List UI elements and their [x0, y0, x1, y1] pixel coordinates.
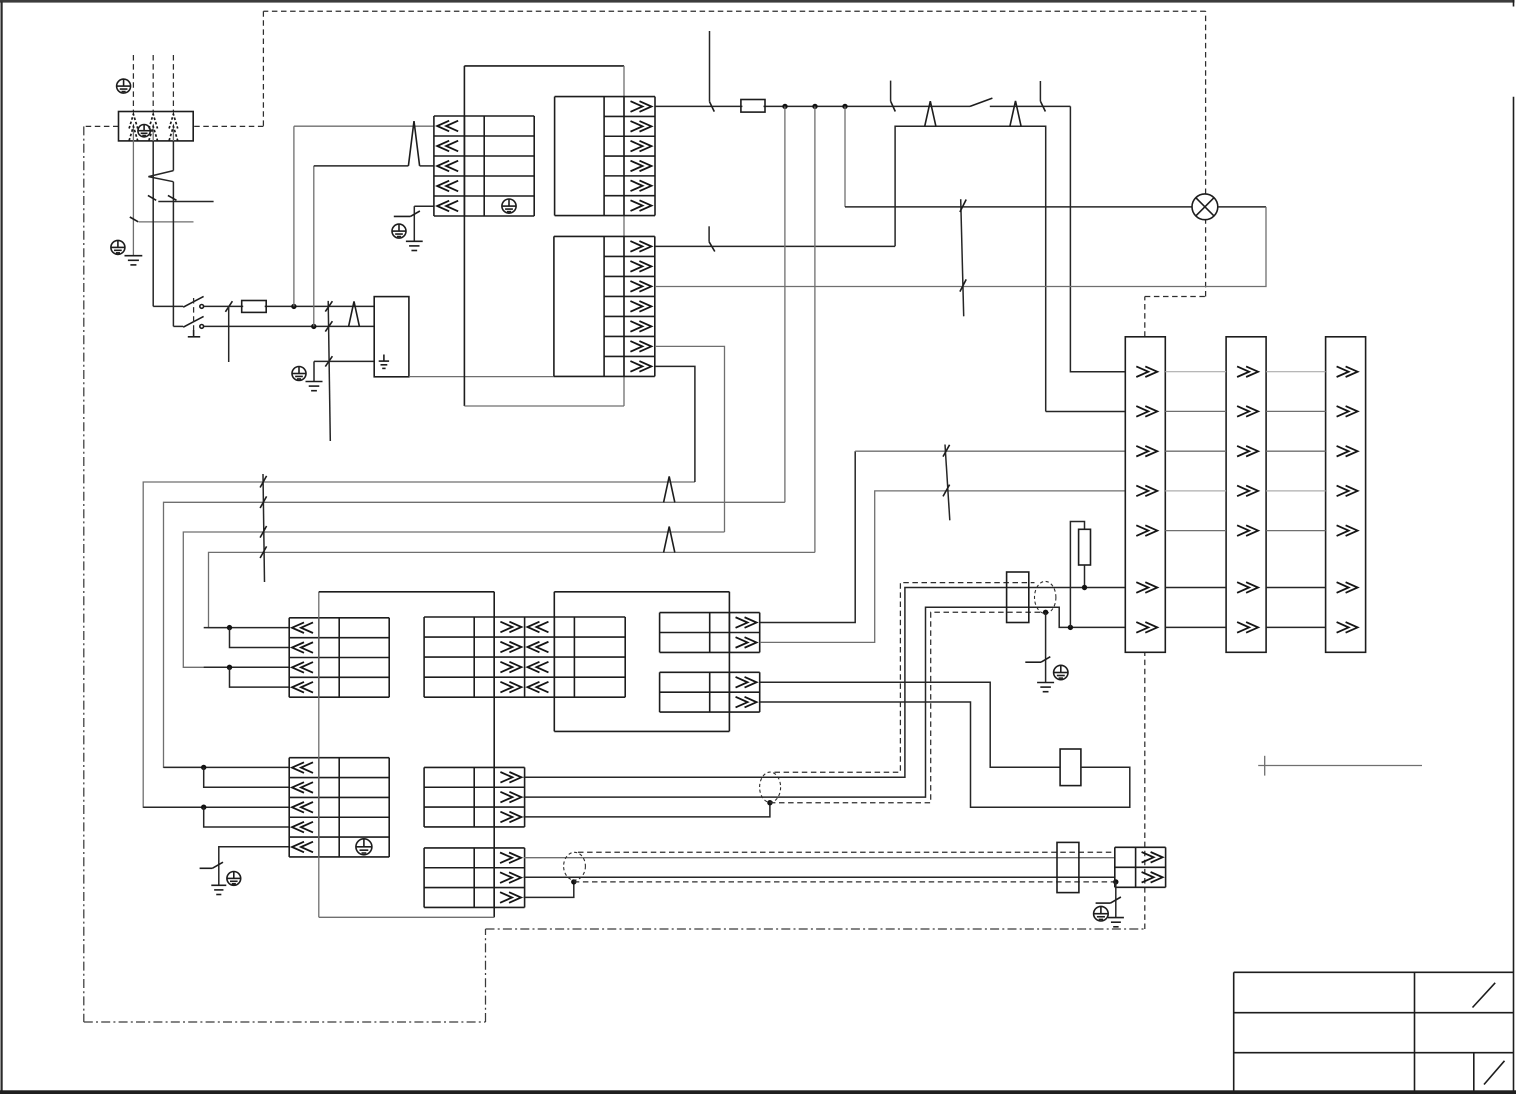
wire L3 corner to switch QS1 — [173, 325, 183, 327]
wire L3 lower segment — [172, 182, 174, 327]
blade on L3 — [168, 195, 177, 200]
ground at PE wire — [306, 382, 323, 391]
strip link wire y587 a — [1165, 587, 1226, 589]
title block table — [1234, 972, 1514, 1090]
spark gap bypass 2 — [1010, 101, 1021, 126]
terminal block XT6 — [424, 848, 524, 908]
input wire row3 left segment — [314, 165, 409, 167]
PE XT9 — [1094, 906, 1109, 921]
cable D ellipse — [760, 772, 781, 802]
terminal block XT1 grid — [434, 116, 534, 216]
page border top-right hook — [1513, 0, 1515, 7]
PE at XT3 ground — [227, 872, 241, 886]
2-pole switch linkage right — [945, 445, 950, 521]
fuse FU2 — [741, 100, 765, 113]
dashed drop to arrester — [262, 11, 264, 126]
3-pole switch blade row A — [325, 301, 332, 311]
terminal block XT3 — [289, 758, 389, 857]
wire to strip row3 — [855, 450, 1125, 452]
earthing switch blade XT3 — [200, 862, 223, 868]
feeder XT3 row3 wire — [143, 806, 289, 808]
feeder XT2 row3 wire — [204, 666, 290, 668]
cable E wire 2 — [524, 876, 1115, 878]
resistor R1 lead — [1084, 565, 1086, 588]
ferrite filter on cable E — [1057, 842, 1079, 892]
blade on L2 — [148, 195, 156, 200]
bypass wire to strip row2 — [1046, 411, 1126, 413]
feeder XT3 row1 wire — [164, 766, 290, 768]
wire L1 down from arrester — [132, 141, 134, 256]
spark gap bypass 1 — [925, 101, 936, 126]
device block U2 — [555, 97, 655, 216]
cabinet dashed border left — [83, 126, 85, 1022]
stub blade on U3 row1 wire — [709, 226, 715, 251]
3-pole switch linkage — [328, 301, 330, 441]
dashed lamp drop upper — [1205, 11, 1207, 194]
branch to XT2 row4 — [230, 667, 290, 687]
feeder corner down x1070 — [1070, 106, 1125, 371]
switch QS1 handle — [188, 330, 200, 337]
page border right — [1513, 97, 1515, 1092]
linkage line for L2/L3 switch — [158, 201, 213, 203]
shield bond dot cable E — [571, 879, 576, 884]
stub with blade x890 — [891, 81, 896, 112]
4-pole switch linkage — [263, 474, 265, 582]
dashed feeder stub L2 — [152, 55, 154, 112]
earthing switch blade shield — [1025, 657, 1050, 663]
indicator lamp HL — [1192, 194, 1218, 220]
input wire row1 to terminal XT1 — [294, 125, 435, 127]
switch QS1 blade upper — [183, 296, 203, 307]
earthing drop at x414 — [413, 206, 415, 241]
page border top — [0, 0, 1515, 3]
blade LB4 — [260, 546, 267, 558]
junction dot feeder 3 — [842, 104, 847, 109]
PE symbol in XT1 row5 — [502, 199, 516, 213]
strip link wire y411 b — [1266, 410, 1325, 412]
grey riser from terminal row1 — [293, 126, 295, 306]
ground shield D — [1037, 683, 1054, 692]
switch QS1 blade lower — [183, 316, 203, 327]
PE wire into power box — [314, 360, 374, 362]
earthing drop XT3 — [218, 866, 220, 885]
ferrite filter on cable D — [1007, 572, 1029, 623]
cable E wire 3 shield bond — [524, 882, 574, 898]
2-pole switch linkage mid — [961, 199, 964, 316]
dashed link to lamp drop — [1145, 296, 1206, 298]
shield earth dot right — [1043, 610, 1048, 615]
junction dot feeder 1 — [782, 104, 787, 109]
riser feeder dot2 to LB4 — [814, 106, 816, 552]
bypass line under feeder — [895, 126, 1046, 411]
double terminal block XT4 — [424, 617, 625, 697]
mini block XT7 — [660, 613, 760, 653]
strip link wire y627 b — [1266, 626, 1325, 628]
feeder drop from top — [709, 31, 711, 102]
grey riser from terminal row3 — [313, 166, 315, 327]
arrester arrow 1 — [129, 114, 138, 141]
junction dot phase A — [291, 304, 296, 309]
earthing switch blade x414 — [394, 211, 420, 216]
earthing switch blade XT9 — [1096, 897, 1121, 903]
main feeder wire left part — [655, 105, 970, 107]
blade on lamp return — [960, 279, 966, 291]
riser feeder dot1 to LB2 — [784, 106, 786, 502]
power supply box U1 — [374, 297, 409, 377]
blade LB1 — [260, 476, 267, 488]
cable D wire 2 (strip row7) — [524, 607, 1126, 797]
dashed stub above strip — [1144, 297, 1146, 337]
cable D wire 1 (strip row6) — [524, 588, 1126, 778]
wire L2 down from arrester — [152, 141, 154, 306]
device block U3 — [554, 236, 655, 376]
terminal strip TS3 — [1326, 337, 1366, 653]
PE symbol at PE wire ground — [292, 367, 306, 381]
blade on lamp wire — [960, 200, 966, 213]
fuse FU1 — [242, 301, 267, 313]
mini block XT9 — [1115, 847, 1166, 887]
strip link wire y490 a — [1165, 490, 1226, 492]
dashed link arrester right — [193, 125, 263, 127]
wire XT8 row1 to relay — [760, 682, 1060, 767]
spark gap LB4 — [664, 527, 675, 553]
strip link wire y371 a — [1165, 371, 1226, 373]
PE symbol above arrester — [117, 79, 131, 93]
strip link wire y451 b — [1266, 450, 1325, 452]
PE wire corner down — [313, 361, 315, 381]
branch to XT3 row4 — [204, 807, 290, 827]
cabinet dashed border step vertical — [485, 929, 487, 1022]
cable D shield ellipse right — [1035, 581, 1056, 613]
wire L2 corner to switch QS1 — [153, 305, 183, 307]
wire XT7 row2 to strip row4 — [760, 491, 1126, 643]
cable D wire 3 shield bond — [524, 803, 770, 817]
surge arrester F1 box — [119, 112, 194, 141]
arrester arrow 3 — [169, 114, 178, 141]
stub with blade x1040 — [1040, 81, 1045, 112]
bus wire LB2 — [164, 502, 785, 767]
shield earth drop XT9 — [1115, 882, 1117, 918]
wire U3 row1 to bypass — [655, 245, 895, 247]
relay loop back to XT8 row2 — [760, 702, 1130, 807]
chassis ground inside power box — [379, 355, 389, 369]
riser U3 row6 to LB3 — [655, 346, 725, 532]
cable D shield dashed lower — [770, 612, 1046, 802]
title block slash 2 — [1484, 1061, 1505, 1085]
cabinet dashed border bottom-right run — [486, 928, 1145, 930]
junction dot resistor — [1082, 585, 1087, 590]
wire power box to main unit — [409, 376, 554, 378]
junction dot XT2 row1 — [227, 625, 232, 630]
strip link wire y627 a — [1165, 626, 1226, 628]
input wire row5 to XT1 — [414, 205, 434, 207]
cabinet dashed border bottom — [84, 1021, 486, 1023]
page border bottom — [0, 1090, 1516, 1094]
bus wire LB3 — [183, 532, 724, 667]
ground for L1 — [125, 256, 143, 265]
cable E shield dashed lower — [574, 881, 1116, 883]
mini block XT8 — [660, 672, 760, 712]
terminal block XT2 — [289, 618, 389, 697]
blade strip row4 wire — [943, 485, 950, 497]
page border left — [1, 2, 3, 1093]
tall spark gap — [408, 121, 419, 166]
junction dot cable D row7 — [1068, 625, 1073, 630]
PE at L1 ground — [111, 240, 125, 254]
branch to XT2 row2 — [230, 628, 290, 648]
branch to XT3 row2 — [204, 767, 290, 787]
datum mark — [1258, 756, 1422, 776]
3-pole switch blade row B — [325, 321, 332, 331]
bus wire LB1 — [143, 482, 695, 807]
cable D shield dashed upper — [775, 583, 1035, 773]
cabinet box lower-mid — [554, 592, 729, 732]
junction dot XT3 row1 — [201, 765, 206, 770]
dashed feeder stub L3 — [172, 55, 174, 112]
main feeder wire right part — [990, 105, 1071, 107]
cable E ellipse — [564, 852, 586, 880]
breaker zigzag on L3 — [148, 171, 173, 182]
bus wire LB4 — [209, 552, 815, 627]
feeder XT2 row1 wire — [204, 627, 290, 629]
shield bond dot cable D — [767, 800, 772, 805]
dashed riser through terminal block — [1144, 652, 1146, 929]
junction dot XT2 row3 — [227, 665, 232, 670]
dashed lamp drop lower — [1205, 219, 1207, 296]
junction dot feeder 2 — [812, 104, 817, 109]
tap with blade at x229 — [225, 301, 232, 362]
disconnect tick on L1 — [130, 217, 138, 222]
PE in XT3 row5 — [356, 839, 372, 855]
spark gap LB2 — [664, 476, 675, 502]
switch QS1 contact circle lower — [200, 325, 204, 329]
lamp return loop — [655, 207, 1266, 287]
blade on feeder drop — [710, 102, 715, 112]
shield earth drop — [1045, 612, 1047, 682]
input wire row3 right segment — [420, 165, 435, 167]
spark gap spike — [349, 301, 360, 326]
terminal block XT5 — [424, 767, 524, 827]
strip link wire y371 b — [1266, 371, 1325, 373]
resistor R1 — [1079, 529, 1091, 565]
cable E wire 1 — [524, 857, 1115, 859]
switch blade on feeder — [970, 98, 992, 106]
title block slash 1 — [1473, 983, 1496, 1008]
junction dot XT3 row3 — [201, 805, 206, 810]
terminal strip TS2 — [1226, 337, 1266, 653]
strip link wire y530 a — [1165, 530, 1226, 532]
PE at x414 — [392, 224, 406, 238]
blade LB2 — [260, 496, 267, 508]
blade strip row3 wire — [943, 445, 950, 457]
relay KA1 box — [1060, 749, 1081, 786]
3-pole switch blade row C — [325, 356, 332, 366]
strip link wire y411 a — [1165, 410, 1226, 412]
lamp return wire right — [1218, 206, 1266, 208]
wire L3 upper segment — [172, 141, 174, 171]
riser U3 row7 to LB1 — [655, 366, 695, 482]
strip link wire y451 a — [1165, 450, 1226, 452]
shield earth dot at XT9 — [1113, 879, 1118, 884]
PE shield D — [1054, 665, 1068, 679]
arrester arrow 2 — [149, 114, 158, 141]
resistor R1 branch — [1070, 522, 1084, 628]
linkage line from L1 tick — [139, 221, 194, 223]
cable E shield dashed upper — [578, 851, 1115, 853]
ground XT3 — [211, 885, 226, 894]
phase wire B to power box — [204, 325, 375, 327]
wire XT7 row1 riser — [760, 451, 856, 622]
terminal strip TS1 — [1125, 337, 1165, 653]
ground XT9 — [1108, 918, 1124, 927]
PE symbol inside arrester — [138, 125, 150, 137]
ground x414 — [406, 241, 423, 250]
strip link wire y530 b — [1266, 530, 1325, 532]
phase wire A to power box — [204, 305, 375, 307]
switch QS1 mechanical link dashed — [193, 298, 195, 330]
switch QS1 contact circle upper — [200, 305, 204, 309]
cabinet box lower-left — [319, 592, 494, 918]
main unit outer box — [464, 66, 624, 406]
lamp wire horizontal — [845, 206, 1192, 208]
XT3 row5 earth wire — [219, 847, 289, 866]
strip link wire y587 b — [1266, 587, 1325, 589]
dashed link arrester left — [84, 125, 119, 127]
dashed feeder stub L1 — [132, 55, 134, 112]
junction dot phase B — [311, 324, 316, 329]
blade LB3 — [260, 526, 267, 538]
lamp feed wire — [844, 106, 846, 206]
strip link wire y490 b — [1266, 490, 1325, 492]
dashed top run — [263, 10, 1205, 12]
